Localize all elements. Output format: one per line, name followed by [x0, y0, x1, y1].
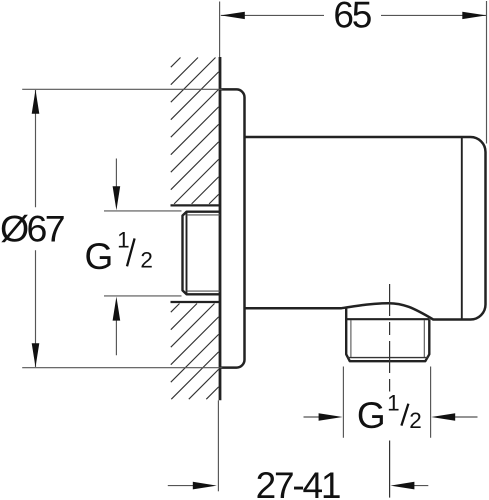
- wall hole lower edge: [171, 301, 220, 303]
- dimension G 1/2 (outlet): extension lines: [343, 367, 430, 438]
- wall section hatch (upper): [171, 58, 219, 204]
- svg-text:2: 2: [140, 248, 153, 273]
- svg-text:G: G: [85, 236, 114, 277]
- wall face line: [219, 57, 222, 400]
- svg-text:2: 2: [409, 408, 422, 433]
- dimension G 1/2 (outlet): fraction slash: [401, 404, 408, 426]
- svg-text:27-41: 27-41: [256, 465, 340, 500]
- body end-cap junction line: [461, 138, 463, 319]
- outlet centerline (dashed): [389, 284, 391, 392]
- svg-text:G: G: [357, 395, 386, 436]
- outlet thread chamfer boundary: [348, 357, 428, 359]
- inlet thread chamfer line: [186, 212, 188, 295]
- dimension Ø67: line: [35, 90, 37, 367]
- dimension G 1/2 (inlet): down arrowhead: [113, 186, 121, 210]
- outlet thread top edge: [346, 318, 429, 320]
- dimension 27-41: right-pointing arrowhead: [193, 482, 217, 490]
- dimension 65: left arrowhead: [221, 12, 245, 19]
- svg-text:1: 1: [387, 391, 400, 416]
- inlet thread outline (left, G 1/2): [183, 212, 220, 295]
- dimension G 1/2 (outlet): left-pointing arrowhead: [431, 413, 455, 421]
- dimension G 1/2 (inlet): up arrowhead: [113, 297, 121, 321]
- wall extension line (top): [219, 2, 221, 58]
- dimension 65: line: [221, 14, 487, 16]
- dimension 27-41: arrow tails: [168, 485, 429, 487]
- dimension G 1/2 (outlet): right-pointing arrowhead: [319, 413, 343, 421]
- svg-text:Ø67: Ø67: [0, 207, 64, 249]
- flange (escutcheon, Ø67): [220, 89, 245, 367]
- outlet centerline (lower solid segment): [389, 441, 391, 498]
- wall hole upper edge: [171, 204, 220, 206]
- wall section hatch (lower): [171, 304, 219, 400]
- dimension Ø67: extension lines: [22, 89, 222, 367]
- body (wall union housing): [245, 137, 486, 320]
- dimension G 1/2 (inlet): arrow tails: [115, 159, 117, 356]
- dimension 65: right arrowhead: [462, 12, 486, 19]
- inlet thread root lines: [187, 215, 220, 291]
- dimension Ø67: up arrowhead: [32, 90, 40, 114]
- dimension G 1/2 (inlet): fraction slash: [127, 238, 135, 266]
- svg-text:1: 1: [117, 228, 130, 253]
- svg-text:65: 65: [333, 0, 371, 36]
- dimension G 1/2 (outlet): arrow tails: [304, 416, 478, 418]
- outlet thread outline (bottom, G 1/2): [346, 308, 429, 362]
- dimension G 1/2 (inlet): extension lines: [104, 211, 182, 296]
- outlet thread root lines: [351, 320, 424, 358]
- wall extension line (bottom): [217, 400, 219, 491]
- extension line right (65): [486, 1, 488, 144]
- dimension 27-41: left-pointing arrowhead: [390, 482, 414, 490]
- dimension Ø67: down arrowhead: [32, 343, 40, 367]
